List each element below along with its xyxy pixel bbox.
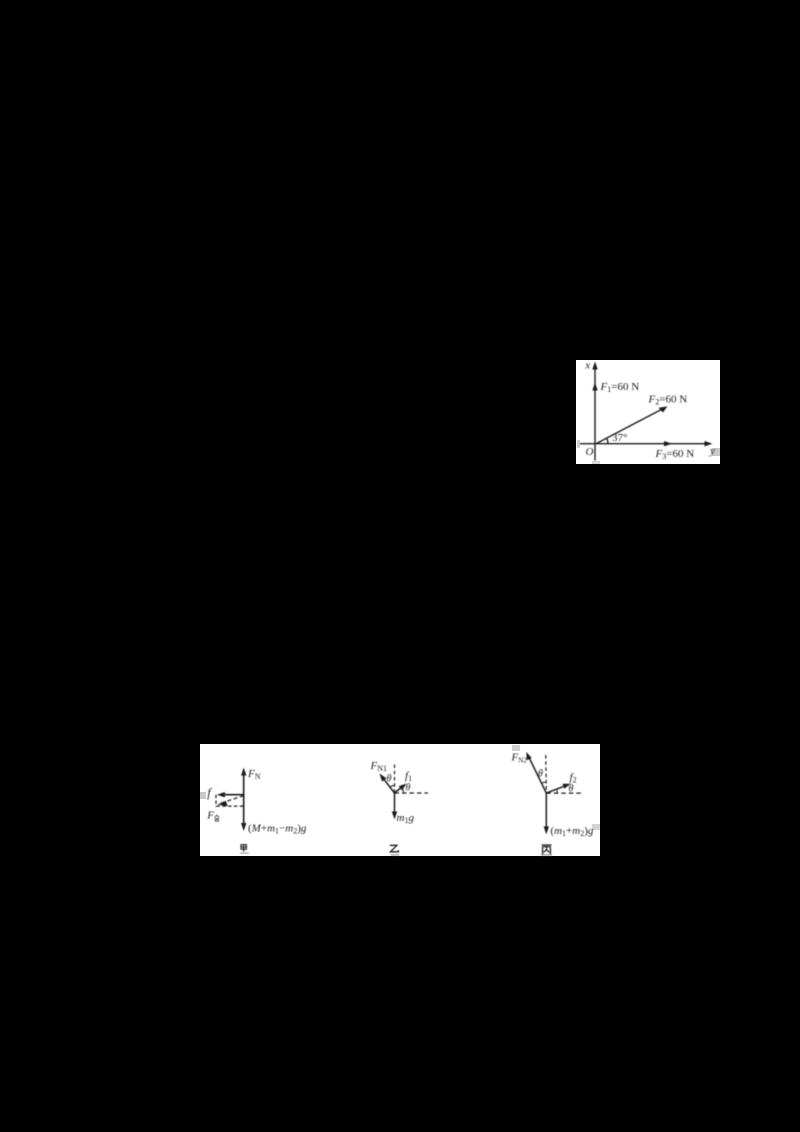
y axis arrowhead (705, 441, 713, 446)
svg-text:O: O (586, 446, 594, 458)
smudge under character yi (391, 854, 400, 855)
angle arc of f2 (556, 789, 559, 793)
svg-text:y: y (709, 445, 715, 457)
resultant arrowhead (217, 801, 227, 806)
svg-text:F2=60 N: F2=60 N (648, 394, 688, 407)
force F1 arrowhead on axis (592, 383, 597, 391)
svg-text:θ: θ (387, 774, 392, 785)
FN1 arrow line (382, 776, 395, 793)
character jia (241, 845, 246, 852)
svg-text:θ: θ (569, 784, 574, 795)
angle arc of f1 (402, 787, 404, 793)
weight arrowhead of bing (544, 826, 549, 834)
svg-text:FN2: FN2 (511, 752, 528, 765)
friction f arrowhead (217, 792, 225, 797)
svg-text:F1=60 N: F1=60 N (600, 381, 640, 394)
white panel 2: three free-body diagrams (200, 744, 600, 856)
f2 arrowhead (563, 784, 571, 789)
svg-text:FN: FN (247, 768, 261, 781)
f2 arrow line (546, 785, 568, 793)
svg-text:(M+m1−m2)g: (M+m1−m2)g (248, 822, 307, 835)
svg-text:m1g: m1g (397, 812, 415, 825)
subscript he (Chinese) of F-he (215, 815, 220, 821)
character bing (542, 845, 552, 854)
f1 arrow line (395, 785, 405, 793)
force F2 vector line (596, 408, 664, 444)
scan artifact gray patch left edge of panel 1 (577, 440, 580, 448)
friction f arrow line (220, 794, 244, 796)
svg-text:θ: θ (538, 769, 543, 780)
f1 arrowhead (399, 783, 407, 790)
svg-text:F3=60 N: F3=60 N (655, 448, 695, 461)
smudge under character bing (541, 854, 552, 855)
svg-text:F: F (206, 810, 214, 822)
svg-text:(m1+m2)g: (m1+m2)g (550, 825, 593, 838)
svg-text:37°: 37° (612, 432, 627, 444)
angle arc of FN1 (390, 785, 395, 786)
force F3 arrowhead on axis (664, 441, 672, 446)
force F2 arrowhead (659, 406, 668, 412)
m1g arrow line (394, 793, 396, 817)
horizontal dashed reference of bing (546, 792, 582, 794)
svg-text:θ: θ (406, 783, 411, 794)
svg-text:f: f (207, 786, 212, 800)
white panel 1: force coordinate diagram (576, 360, 720, 464)
scan artifact gray patch bottom edge (592, 461, 600, 464)
m1g arrowhead (392, 812, 397, 820)
dashed diagonal resultant line (220, 796, 244, 804)
FN1 arrowhead (380, 774, 387, 782)
vertical line of jia (243, 770, 245, 829)
FN arrowhead up (241, 768, 246, 776)
scan artifact gray patch right edge (712, 448, 720, 456)
vertical dashed reference of yi (394, 765, 396, 794)
character yi (390, 845, 399, 852)
horizontal dashed reference of yi (395, 792, 429, 794)
dashed vertical construction line (215, 795, 217, 807)
angle arc of FN2 (542, 782, 547, 783)
FN2 arrowhead (526, 752, 531, 761)
vertical dashed reference of bing (545, 755, 548, 793)
angle arc 37 deg (607, 438, 608, 444)
FN2 arrow line (528, 756, 546, 793)
weight arrowhead down (241, 823, 246, 831)
y axis (horizontal) (580, 443, 709, 445)
scan artifact gray patch left edge (200, 792, 206, 799)
weight arrow line of bing (545, 793, 547, 831)
scan artifact gray patch right of weight label (592, 824, 600, 830)
dashed horizontal construction line (217, 805, 244, 807)
x axis (vertical) (594, 365, 596, 461)
svg-text:FN1: FN1 (370, 760, 388, 773)
scan artifact gray patch near FN2 (512, 745, 520, 751)
svg-text:x: x (584, 360, 590, 372)
svg-text:f1: f1 (405, 770, 412, 783)
smudge under character jia (240, 853, 249, 854)
x axis arrowhead (592, 362, 597, 370)
